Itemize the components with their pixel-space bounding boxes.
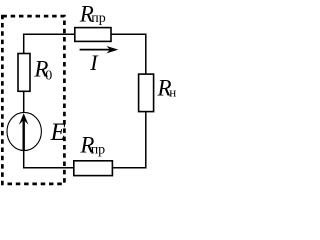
svg-text:н: н xyxy=(169,84,176,99)
EMF arrow inside source xyxy=(23,117,25,151)
svg-text:0: 0 xyxy=(45,69,52,84)
resistor R0 (internal resistance) xyxy=(18,54,30,92)
svg-text:E: E xyxy=(50,119,66,146)
resistor Rn (load) xyxy=(139,74,154,112)
dashed box: EMF source boundary xyxy=(2,16,64,184)
resistor Rpr (bottom wire resistance) xyxy=(74,161,113,176)
wire: source circle top to R0 bottom xyxy=(23,91,25,112)
EMF source E (ellipse) xyxy=(7,112,41,150)
current arrow I xyxy=(80,49,111,51)
resistor Rpr (top wire resistance) xyxy=(75,28,111,42)
svg-text:пр: пр xyxy=(91,11,106,26)
wire: bottom resistor to source circle bottom xyxy=(24,151,74,168)
wire: top resistor to Rn top xyxy=(111,34,146,74)
wire: Rn bottom to bottom resistor xyxy=(112,112,145,168)
wire: R0 top to top resistor xyxy=(24,34,75,53)
svg-text:пр: пр xyxy=(91,143,106,158)
